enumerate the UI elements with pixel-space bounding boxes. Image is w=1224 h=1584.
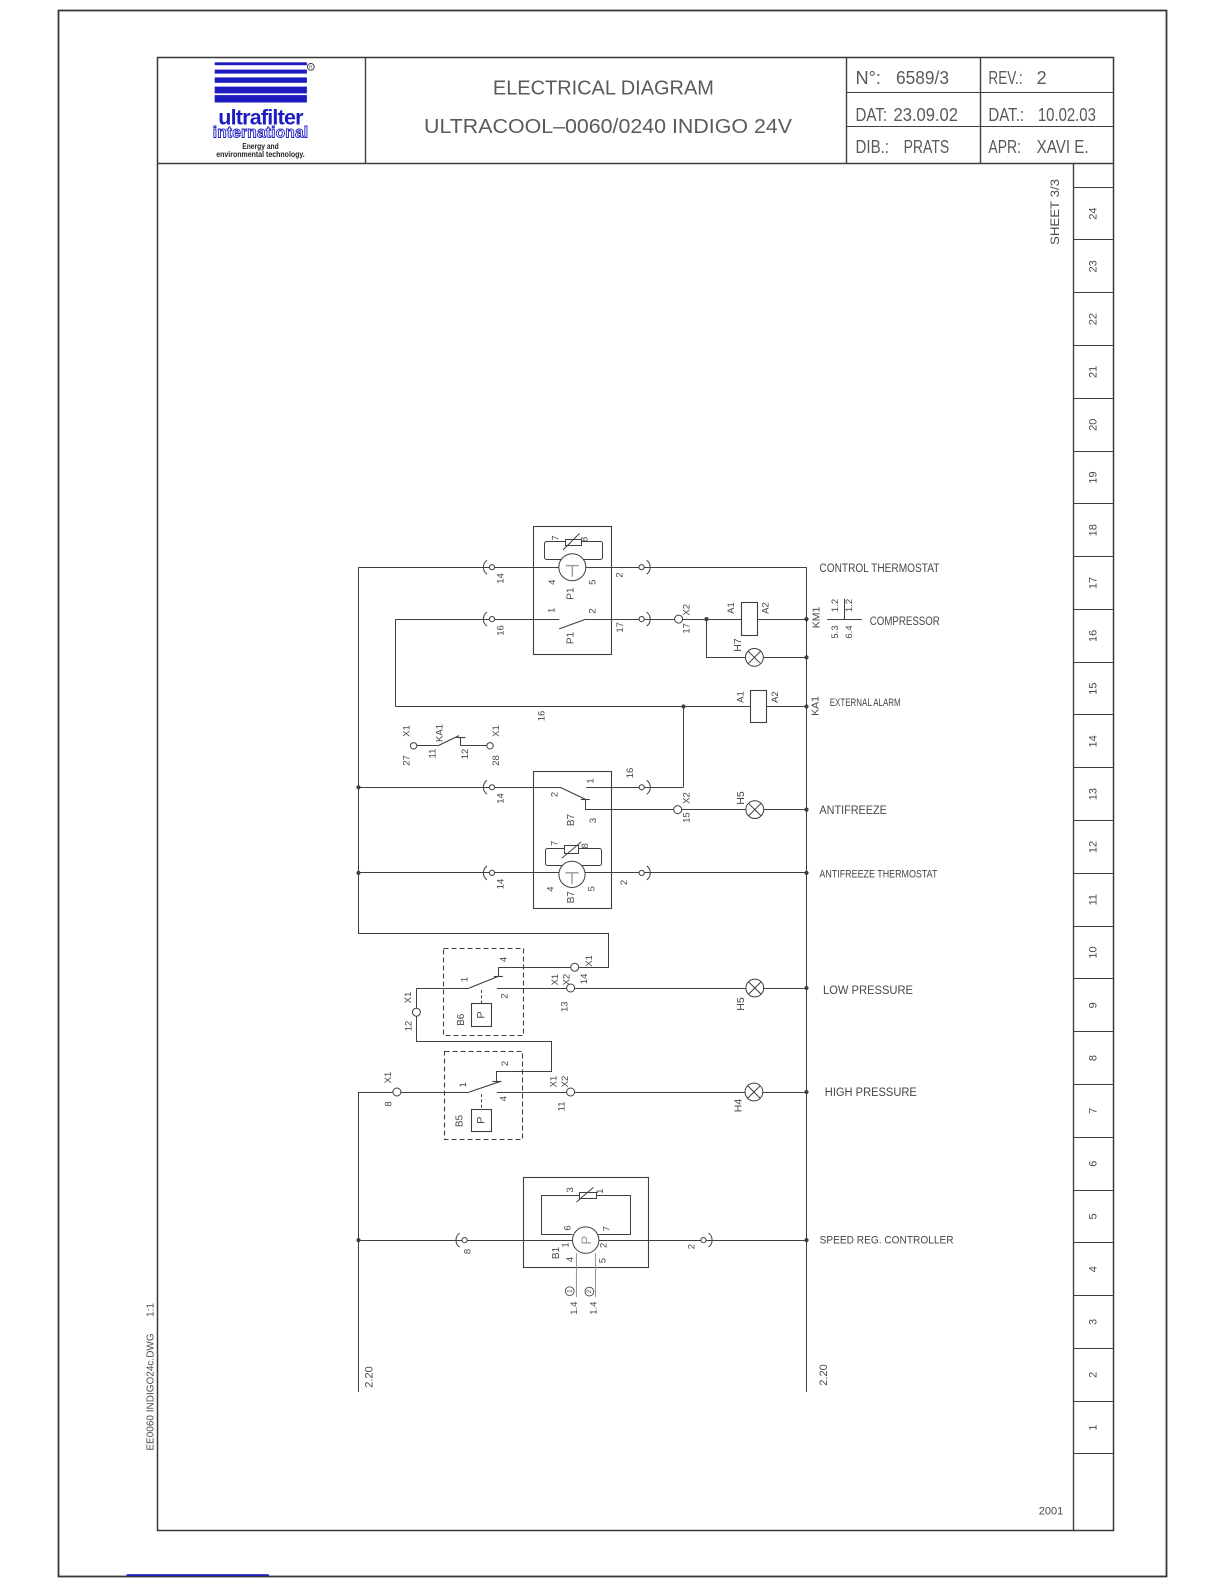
svg-text:6589/3: 6589/3 — [896, 68, 949, 88]
svg-text:6: 6 — [563, 1225, 574, 1230]
wire junction to lamp H7 — [707, 620, 746, 658]
wire P1 switch pin 2 — [586, 619, 612, 621]
controller B1 sensor circle — [573, 1227, 599, 1253]
svg-text:1: 1 — [566, 1289, 573, 1293]
connector 2 speed controller — [709, 1233, 713, 1247]
node right bus high pressure — [804, 1090, 808, 1094]
svg-text:11: 11 — [557, 1101, 568, 1111]
connector 14 antifreeze thermostat — [483, 866, 487, 880]
thermistor element B7 pins 7-8 — [565, 846, 579, 854]
svg-text:4: 4 — [1088, 1266, 1100, 1272]
wire lamp H5 to right bus — [764, 809, 807, 811]
svg-text:14: 14 — [579, 974, 590, 985]
lamp H5 low pressure — [746, 979, 764, 997]
terminal X1 pin 28 — [487, 743, 493, 749]
svg-text:CONTROL THERMOSTAT: CONTROL THERMOSTAT — [819, 561, 939, 575]
connector 17 on compressor line — [647, 612, 651, 626]
svg-text:COMPRESSOR: COMPRESSOR — [870, 614, 940, 628]
svg-text:2: 2 — [1037, 68, 1047, 88]
wire B5 pin 4 to X terminal — [497, 1092, 567, 1094]
switch contact B5 blade — [469, 1082, 500, 1092]
svg-text:B6: B6 — [456, 1013, 467, 1026]
reference column cell 23 — [1074, 292, 1114, 294]
svg-text:1: 1 — [595, 1189, 606, 1194]
svg-text:28: 28 — [491, 755, 502, 766]
svg-text:10.02.03: 10.02.03 — [1038, 105, 1096, 125]
reference column cell 9 — [1074, 1031, 1114, 1033]
logo ultrafilter bars — [215, 62, 307, 65]
svg-text:1:1: 1:1 — [146, 1303, 157, 1317]
svg-text:9: 9 — [1088, 1002, 1100, 1008]
reference column cell 8 — [1074, 1084, 1114, 1086]
svg-text:P1: P1 — [566, 587, 577, 600]
svg-text:18: 18 — [1088, 524, 1100, 536]
reference column cell 5 — [1074, 1242, 1114, 1244]
svg-text:2: 2 — [550, 792, 561, 797]
wire controller B1 to right bus — [599, 1240, 807, 1242]
svg-text:4: 4 — [498, 957, 509, 962]
wire KA1 coil to right bus — [766, 706, 806, 708]
svg-text:2: 2 — [588, 608, 599, 613]
svg-text:B7: B7 — [566, 891, 577, 904]
wire left bus to B5 pin 1 — [359, 1092, 470, 1094]
svg-text:H7: H7 — [732, 638, 744, 652]
svg-text:X1: X1 — [550, 974, 561, 986]
svg-text:2: 2 — [500, 993, 511, 998]
reference column cell 1 — [1074, 1453, 1114, 1455]
svg-text:X2: X2 — [682, 792, 693, 804]
svg-text:11: 11 — [1088, 894, 1100, 905]
wire X2 terminal to lamp H5 — [682, 809, 746, 811]
svg-text:16: 16 — [1088, 630, 1100, 642]
svg-text:H5: H5 — [735, 791, 747, 805]
svg-text:P: P — [476, 1117, 488, 1124]
svg-text:17: 17 — [682, 623, 693, 634]
svg-text:1: 1 — [1088, 1424, 1100, 1430]
svg-text:5.3: 5.3 — [830, 625, 841, 638]
svg-text:1: 1 — [458, 1082, 469, 1087]
svg-text:2: 2 — [500, 1061, 511, 1066]
connector 8 speed controller — [456, 1233, 460, 1247]
svg-text:KA1: KA1 — [809, 696, 821, 716]
svg-text:H5: H5 — [735, 997, 747, 1011]
reference column cell 19 — [1074, 503, 1114, 505]
svg-text:1: 1 — [586, 778, 597, 783]
terminal X2 pin 17 — [675, 615, 683, 623]
svg-text:A1: A1 — [726, 602, 737, 614]
reference column cell 16 — [1074, 662, 1114, 664]
svg-text:X1: X1 — [548, 1076, 559, 1088]
svg-text:7: 7 — [550, 841, 561, 846]
wire control thermostat line — [359, 567, 807, 569]
wire X terminal to lamp H5 — [575, 988, 746, 990]
svg-text:1.4: 1.4 — [569, 1302, 580, 1315]
wire KA1 contact pin 12 — [461, 745, 487, 747]
wire lamp H5 to right bus — [764, 988, 807, 990]
svg-text:8: 8 — [384, 1101, 395, 1106]
controller B1 inner loop left — [542, 1196, 580, 1235]
reference column cell 21 — [1074, 398, 1114, 400]
thermistor element P1 pins 7-8 — [566, 540, 582, 546]
svg-text:7: 7 — [1088, 1108, 1100, 1114]
switch contact B7 tick — [581, 799, 590, 801]
wire B7 pin 3 to X2 terminal — [586, 800, 674, 810]
reference column cell 11 — [1074, 926, 1114, 928]
switch contact P1 blade — [559, 619, 586, 629]
svg-text:5: 5 — [598, 1258, 609, 1263]
svg-text:APR:: APR: — [988, 137, 1021, 157]
svg-text:1: 1 — [460, 977, 471, 982]
wire from inner bus to P1 switch — [396, 619, 534, 621]
terminal X1 pin 12 — [412, 1008, 420, 1016]
svg-text:N°:: N°: — [856, 68, 882, 88]
thermostat sensor B7 — [559, 861, 585, 887]
wire external alarm line — [396, 706, 751, 708]
svg-text:PRATS: PRATS — [904, 137, 950, 157]
wire left bus upper segment — [358, 567, 360, 934]
svg-text:14: 14 — [1088, 735, 1100, 747]
svg-text:14: 14 — [496, 573, 507, 584]
svg-text:11: 11 — [428, 749, 439, 759]
wire P1 switch to KM1 coil — [612, 619, 742, 621]
terminal X1/X2 pin 11 — [567, 1088, 575, 1096]
svg-text:X1: X1 — [402, 725, 413, 737]
svg-text:P1: P1 — [566, 631, 577, 644]
node right bus low pressure — [804, 986, 808, 990]
wire left bus to controller B1 — [358, 1240, 572, 1242]
svg-text:X2: X2 — [682, 604, 693, 616]
title block row divider 2 — [846, 126, 1114, 128]
inner drawing border — [158, 58, 1114, 1531]
svg-text:KA1: KA1 — [435, 724, 446, 742]
svg-text:2: 2 — [615, 572, 626, 577]
svg-text:16: 16 — [496, 625, 507, 636]
connector 2 antifreeze thermostat — [647, 866, 651, 880]
svg-text:17: 17 — [1088, 577, 1100, 589]
wire B6 pin1 via X1 12 to B5 pin 2 — [417, 989, 552, 1082]
reference column cell 15 — [1074, 714, 1114, 716]
svg-text:6: 6 — [1088, 1161, 1100, 1167]
svg-text:14: 14 — [496, 879, 507, 890]
sheet reference mark 1 — [565, 1287, 574, 1296]
svg-text:20: 20 — [1088, 419, 1100, 431]
svg-text:8: 8 — [1088, 1055, 1100, 1061]
svg-text:5: 5 — [588, 580, 599, 585]
svg-text:3: 3 — [565, 1187, 576, 1192]
switch contact KA1 11-12 blade — [438, 736, 459, 746]
wire right bus — [806, 567, 808, 1392]
svg-text:2: 2 — [1088, 1372, 1100, 1378]
wire B1 pin 5 stub to sheet 1.4 — [595, 1253, 597, 1297]
reference column cell 17 — [1074, 609, 1114, 611]
reference column cell 12 — [1074, 873, 1114, 875]
wire X terminal to lamp H4 — [575, 1092, 745, 1094]
svg-text:2.20: 2.20 — [818, 1364, 830, 1385]
svg-text:SPEED REG. CONTROLLER: SPEED REG. CONTROLLER — [820, 1235, 954, 1247]
sheet reference column top cell divider — [1074, 187, 1114, 189]
reference column cell 6 — [1074, 1190, 1114, 1192]
svg-text:X2: X2 — [562, 974, 573, 986]
node right bus antifreeze — [804, 808, 808, 812]
svg-text:21: 21 — [1088, 366, 1100, 378]
svg-text:16: 16 — [537, 711, 548, 722]
svg-text:international: international — [213, 125, 309, 142]
svg-text:3: 3 — [1088, 1319, 1100, 1325]
svg-text:DIB.:: DIB.: — [856, 137, 890, 157]
connector 14 control thermostat — [483, 560, 487, 574]
terminal X1 pin 8 — [393, 1088, 401, 1096]
node right bus antifreeze thermostat — [804, 871, 808, 875]
svg-text:HIGH PRESSURE: HIGH PRESSURE — [825, 1085, 917, 1099]
lamp H4 — [745, 1083, 763, 1101]
svg-text:1.2: 1.2 — [844, 599, 855, 612]
node right bus external alarm — [804, 704, 808, 708]
reference column cell 13 — [1074, 820, 1114, 822]
svg-text:15: 15 — [1088, 682, 1100, 694]
connector 16 on compressor line — [483, 612, 487, 626]
svg-text:EE0060 INDIGO24c.DWG: EE0060 INDIGO24c.DWG — [146, 1333, 157, 1450]
reference column cell 22 — [1074, 345, 1114, 347]
svg-text:24: 24 — [1088, 207, 1100, 219]
svg-text:12: 12 — [1088, 841, 1100, 853]
node junction KM1/H7 — [704, 617, 708, 621]
wire left bus to B6 pin 4 terminal — [359, 934, 609, 968]
thermostat sensor P1 — [559, 554, 586, 581]
wire riser to external alarm junction — [683, 707, 685, 788]
svg-text:2: 2 — [599, 1243, 610, 1248]
wire left bus lower segment — [358, 1092, 360, 1392]
coil KM1 — [742, 603, 758, 636]
svg-text:P: P — [579, 1236, 594, 1245]
svg-text:8: 8 — [463, 1249, 474, 1254]
thermostat P1 sensor frame — [545, 542, 603, 560]
thermostat B7 sensor frame — [546, 849, 602, 866]
terminal X1 pin 27 — [410, 743, 416, 749]
svg-text:1.4: 1.4 — [589, 1302, 600, 1315]
node junction KA1/antifreeze feed — [681, 704, 685, 708]
reference column cell 7 — [1074, 1137, 1114, 1139]
pressure actuator B5 — [472, 1110, 492, 1132]
wire antifreeze line pin 2 — [359, 787, 561, 789]
svg-text:4: 4 — [547, 580, 558, 585]
node right bus speed controller — [804, 1238, 808, 1242]
node right bus compressor — [804, 617, 808, 621]
node right bus H7 — [804, 655, 808, 659]
svg-text:4: 4 — [498, 1096, 509, 1101]
svg-text:XAVI E.: XAVI E. — [1037, 137, 1089, 157]
svg-text:4: 4 — [565, 1257, 576, 1262]
svg-text:6.4: 6.4 — [844, 625, 855, 638]
svg-text:23: 23 — [1088, 260, 1100, 272]
terminal X1 pin 14 — [571, 963, 579, 971]
svg-text:23.09.02: 23.09.02 — [894, 105, 959, 125]
switch contact B7 blade — [560, 787, 585, 799]
svg-text:16: 16 — [625, 768, 636, 779]
switch contact B6 tick — [494, 976, 503, 978]
switch contact B6 blade — [469, 976, 498, 988]
svg-text:A2: A2 — [761, 602, 772, 614]
wire lamp H4 to right bus — [763, 1092, 807, 1094]
pressure actuator B6 — [472, 1004, 492, 1027]
terminal X2 pin 15 — [674, 806, 682, 814]
svg-text:5: 5 — [1088, 1213, 1100, 1219]
svg-text:12: 12 — [404, 1021, 415, 1032]
svg-text:4: 4 — [546, 886, 557, 891]
title block row divider 1 — [846, 92, 1114, 94]
svg-text:2.20: 2.20 — [364, 1366, 376, 1387]
svg-text:1: 1 — [546, 608, 557, 613]
svg-text:8: 8 — [579, 537, 590, 542]
lamp H5 antifreeze — [746, 801, 764, 819]
svg-text:LOW PRESSURE: LOW PRESSURE — [823, 983, 913, 997]
svg-text:27: 27 — [402, 755, 413, 766]
connector 16 antifreeze — [647, 780, 651, 794]
sheet reference column left edge — [1073, 163, 1075, 1530]
controller B1 inner loop right — [597, 1196, 631, 1235]
svg-text:13: 13 — [560, 1001, 571, 1012]
pressure actuator B5 dashed link — [481, 1094, 483, 1109]
controller B1 enclosure — [524, 1178, 649, 1268]
wire B6 pin 4 stub — [498, 967, 500, 976]
node left bus speed controller — [356, 1238, 360, 1242]
thermostat P1 enclosure — [534, 527, 612, 655]
lamp H7 — [746, 649, 764, 667]
contactor KM1 cross reference table — [827, 619, 862, 621]
svg-text:SHEET 3/3: SHEET 3/3 — [1050, 179, 1062, 245]
wire inner left bus — [395, 619, 397, 706]
svg-text:2: 2 — [619, 880, 630, 885]
reference column cell 20 — [1074, 451, 1114, 453]
wire KA1 contact pin 12 stub — [460, 738, 462, 746]
svg-text:13: 13 — [1088, 788, 1100, 800]
reference column cell 24 — [1074, 239, 1114, 241]
pressure switch B5 enclosure — [445, 1052, 523, 1140]
blue underline mark — [127, 1574, 269, 1576]
svg-text:19: 19 — [1088, 471, 1100, 483]
svg-text:7: 7 — [602, 1226, 613, 1231]
svg-text:5: 5 — [586, 886, 597, 891]
wire B6 pin 1 — [416, 988, 469, 990]
svg-text:EXTERNAL ALARM: EXTERNAL ALARM — [830, 697, 901, 709]
svg-text:X1: X1 — [491, 725, 502, 737]
switch contact B5 tick — [492, 1081, 501, 1083]
svg-text:H4: H4 — [732, 1099, 744, 1113]
svg-text:A2: A2 — [770, 691, 781, 703]
reference column cell 14 — [1074, 767, 1114, 769]
terminal X1/X2 pin 13 — [567, 984, 575, 992]
pressure actuator B6 dashed link — [481, 990, 483, 1004]
reference column cell 18 — [1074, 556, 1114, 558]
reference column cell 4 — [1074, 1295, 1114, 1297]
svg-text:B1: B1 — [551, 1246, 562, 1259]
title block divider title/fields — [846, 58, 848, 164]
logo registered mark — [307, 63, 314, 70]
svg-text:15: 15 — [682, 812, 693, 823]
svg-text:KM1: KM1 — [811, 607, 823, 629]
antifreeze switch B7 enclosure — [534, 772, 612, 909]
svg-text:X2: X2 — [560, 1076, 571, 1088]
svg-text:ANTIFREEZE THERMOSTAT: ANTIFREEZE THERMOSTAT — [819, 868, 937, 880]
svg-text:3: 3 — [588, 818, 599, 823]
svg-text:X1: X1 — [584, 955, 595, 967]
svg-text:X1: X1 — [403, 992, 414, 1004]
svg-text:DAT:: DAT: — [856, 105, 888, 125]
svg-text:1: 1 — [561, 1242, 572, 1247]
reference column cell 2 — [1074, 1401, 1114, 1403]
svg-text:2: 2 — [586, 1289, 593, 1293]
svg-text:1.2: 1.2 — [830, 599, 841, 612]
connector 2 control thermostat — [647, 560, 651, 574]
wire KA1 contact pin 11 — [417, 745, 438, 747]
svg-text:12: 12 — [460, 749, 471, 760]
svg-text:ULTRACOOL–0060/0240 INDIGO 2: ULTRACOOL–0060/0240 INDIGO 24V — [424, 116, 793, 138]
node left bus antifreeze — [356, 785, 360, 789]
svg-text:ELECTRICAL DIAGRAM: ELECTRICAL DIAGRAM — [493, 78, 714, 100]
reference column cell 10 — [1074, 978, 1114, 980]
svg-text:17: 17 — [615, 622, 626, 633]
coil KA1 — [751, 691, 767, 723]
wire B1 pin 4 stub to sheet 1.4 — [576, 1253, 578, 1297]
title block divider logo/title — [365, 58, 367, 164]
svg-text:A1: A1 — [735, 691, 746, 703]
svg-text:14: 14 — [496, 793, 507, 804]
wire B7 pin 1 to riser — [586, 787, 683, 789]
wire lamp H7 to right bus — [763, 657, 806, 659]
svg-text:2: 2 — [687, 1244, 698, 1249]
svg-text:8: 8 — [580, 843, 591, 848]
thermistor element B1 pins 3-1 — [580, 1193, 597, 1199]
svg-text:B5: B5 — [455, 1114, 466, 1127]
wire P1 switch pin 1 — [534, 619, 559, 621]
svg-text:environmental technology.: environmental technology. — [216, 149, 305, 159]
wire antifreeze thermostat line — [359, 872, 807, 874]
wire KM1 coil to right bus — [757, 619, 806, 621]
svg-text:10: 10 — [1088, 946, 1100, 958]
svg-text:P: P — [476, 1011, 488, 1018]
svg-text:X1: X1 — [383, 1072, 394, 1084]
connector 14 antifreeze — [483, 780, 487, 794]
sheet reference mark 2 — [585, 1287, 594, 1296]
svg-text:2001: 2001 — [1039, 1506, 1063, 1518]
wire B6 pin 2 to X terminal — [497, 988, 567, 990]
reference column cell 3 — [1074, 1348, 1114, 1350]
title block bottom edge — [158, 163, 1114, 165]
svg-text:7: 7 — [551, 535, 562, 540]
pressure switch B6 enclosure — [444, 949, 524, 1036]
switch contact KA1 tick — [456, 737, 465, 739]
svg-text:B7: B7 — [566, 813, 577, 826]
svg-text:DAT.:: DAT.: — [988, 105, 1024, 125]
svg-text:REV.:: REV.: — [988, 68, 1022, 88]
title block divider fields mid — [980, 58, 982, 164]
svg-text:ANTIFREEZE: ANTIFREEZE — [819, 803, 887, 817]
svg-text:22: 22 — [1088, 313, 1100, 325]
wire X1 terminal to B6 pin 4 — [498, 967, 570, 969]
node left bus antifreeze thermostat — [356, 871, 360, 875]
